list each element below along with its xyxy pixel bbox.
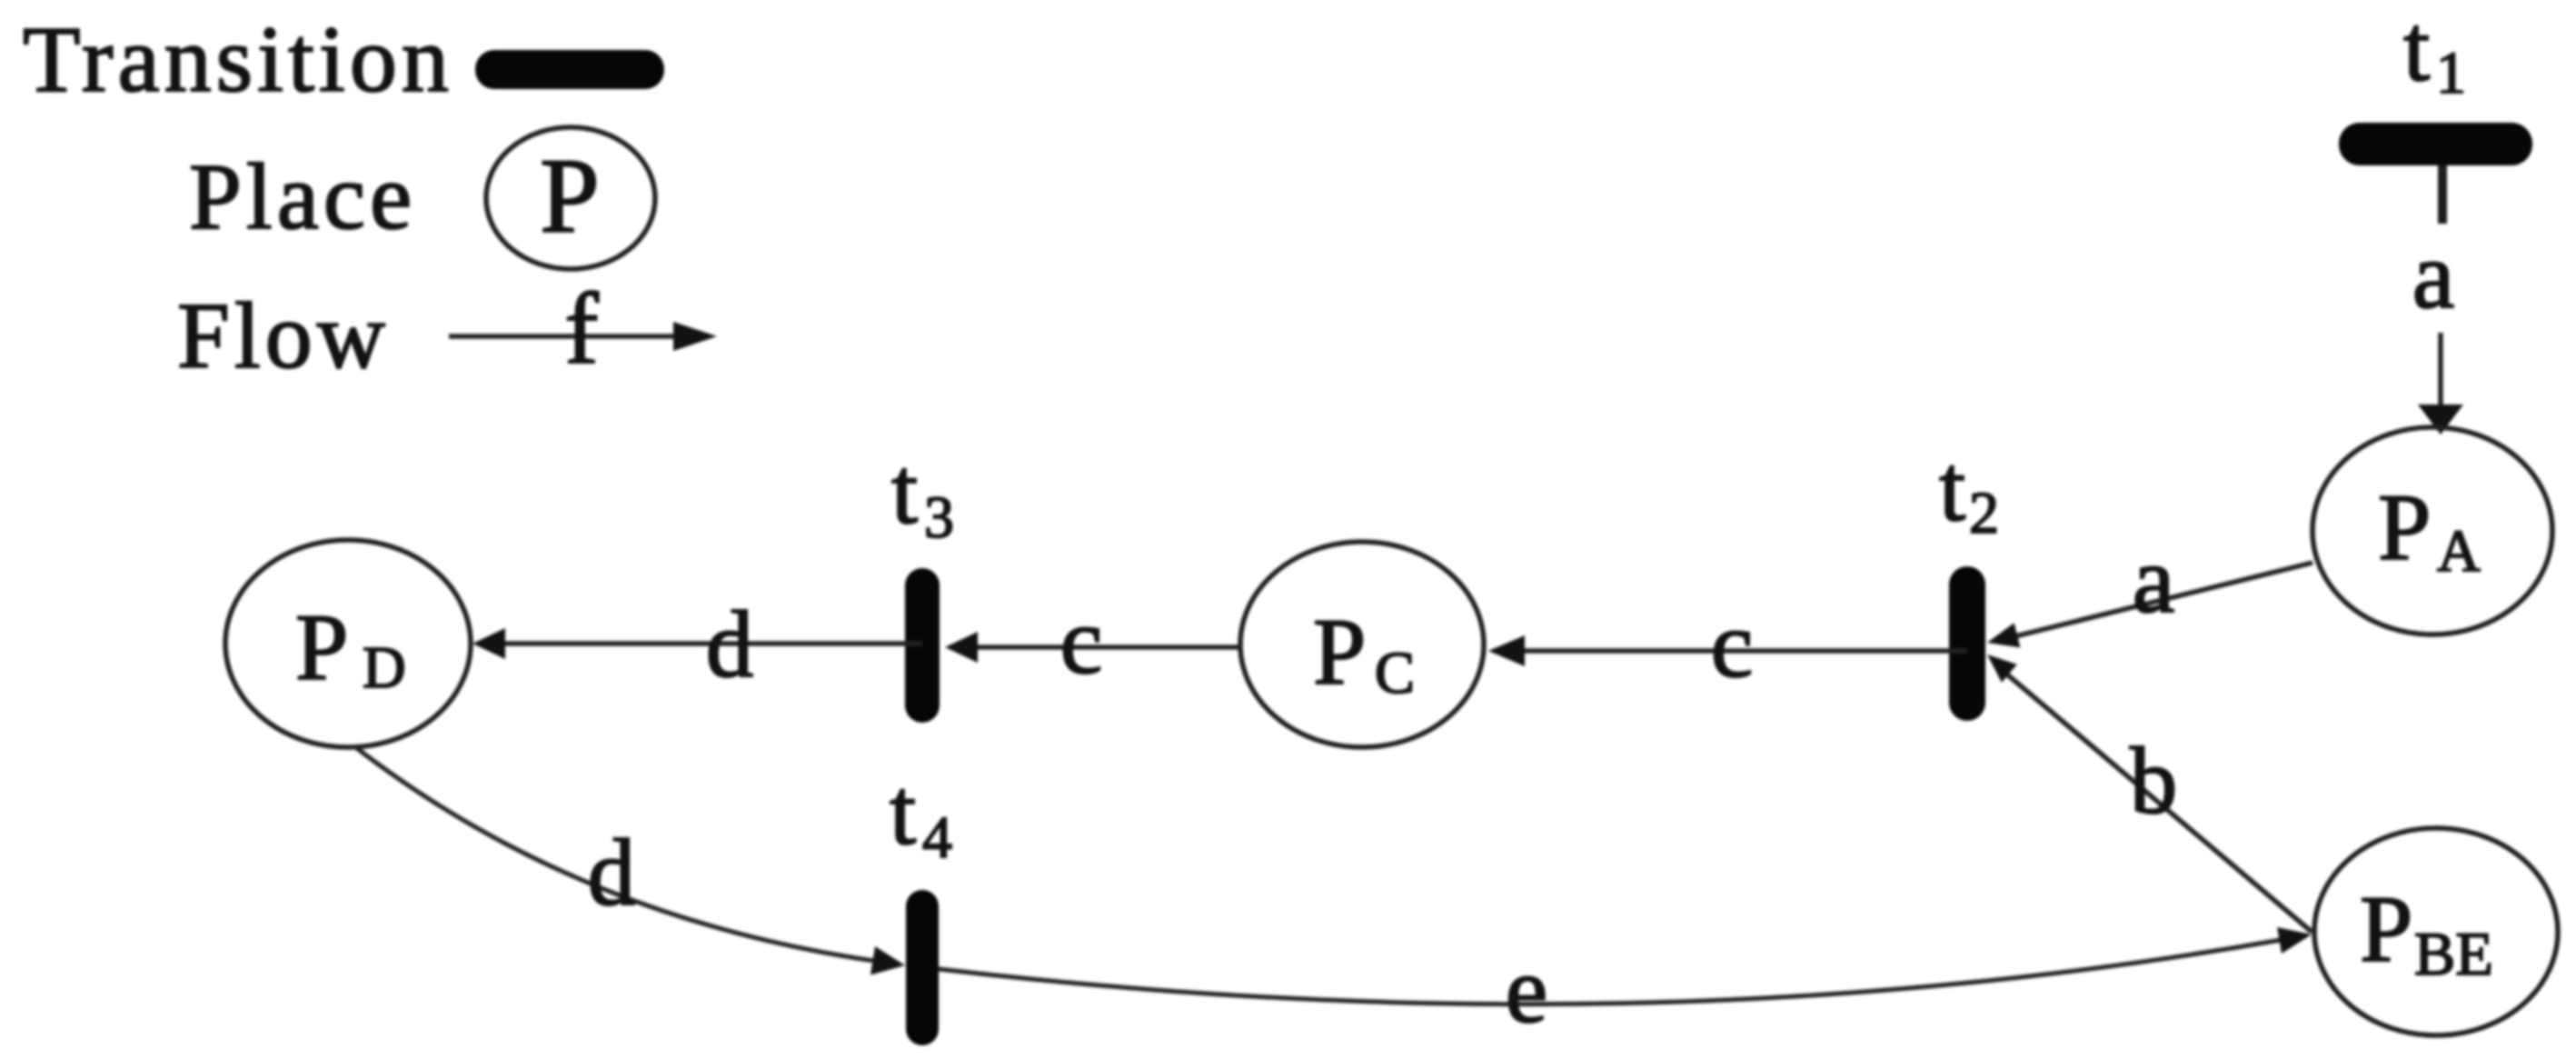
flow d curve (PD to t4) (354, 746, 874, 961)
place PD label (295, 594, 406, 701)
place PD circle (225, 540, 471, 747)
svg-text:t: t (2403, 0, 2430, 101)
transition t1 bar (2339, 123, 2532, 165)
svg-text:t: t (1939, 435, 1965, 541)
svg-text:b: b (2130, 727, 2178, 834)
svg-text:Place: Place (189, 145, 416, 249)
flow d arrowhead at t4 (870, 946, 905, 975)
svg-text:A: A (2437, 518, 2481, 584)
flow e curve (t4 to PBE) (939, 940, 2281, 1004)
svg-text:t: t (890, 758, 916, 864)
flow a wire (PA to t2) (2015, 563, 2312, 636)
svg-text:t: t (891, 437, 918, 544)
svg-text:a: a (2412, 222, 2455, 328)
transition t3 bar (905, 568, 940, 723)
svg-text:d: d (588, 819, 636, 925)
transition t2 bar (1949, 566, 1985, 721)
place PBE label (2360, 875, 2493, 988)
svg-text:3: 3 (924, 485, 954, 551)
flow e arrowhead at PBE (2277, 927, 2312, 954)
legend transition bar symbol (475, 50, 664, 89)
flow b wire (PBE to t2) (2007, 674, 2312, 932)
svg-text:c: c (1060, 587, 1103, 694)
legend place circle symbol (486, 127, 655, 269)
place PC label (1313, 598, 1415, 706)
flow b arrowhead at t2 (1987, 654, 2017, 683)
svg-text:1: 1 (2436, 40, 2466, 106)
transition t4 bar (906, 890, 939, 1045)
flow c wire (t2 to PC) (1523, 648, 1967, 654)
flow c arrowhead at PC (1488, 635, 1525, 666)
flow c arrowhead at t3 (945, 632, 978, 663)
legend flow arrowhead (673, 322, 717, 351)
svg-text:P: P (540, 136, 600, 255)
svg-text:BE: BE (2414, 919, 2493, 988)
legend flow arrow wire (449, 334, 677, 339)
svg-text:P: P (1313, 598, 1366, 704)
flow d wire (t3 to PD) (503, 641, 922, 646)
place PA circle (2312, 427, 2552, 634)
svg-text:P: P (2378, 474, 2431, 580)
flow a arrowhead at t2 (1987, 623, 2020, 647)
svg-text:d: d (706, 591, 754, 697)
svg-text:P: P (295, 594, 348, 700)
svg-text:e: e (1506, 936, 1548, 1043)
place PA label (2378, 474, 2481, 584)
svg-text:4: 4 (922, 804, 952, 871)
flow d arrowhead at PD (472, 628, 505, 659)
svg-text:a: a (2133, 526, 2175, 633)
transition t1 label (2403, 0, 2466, 106)
transition t3 label (891, 437, 954, 551)
flow c wire (PC to t3) (976, 644, 1240, 650)
wire t1 stub (2438, 165, 2447, 224)
flow a wire (t1 to PA) (2438, 333, 2443, 409)
svg-text:2: 2 (1969, 480, 1999, 546)
svg-text:D: D (363, 634, 406, 701)
place PBE circle (2314, 828, 2558, 1035)
svg-text:Flow: Flow (177, 284, 390, 388)
flow a arrowhead at PA (2418, 405, 2463, 435)
transition t2 label (1939, 435, 1999, 546)
svg-text:c: c (1711, 591, 1754, 697)
place PC circle (1240, 542, 1484, 747)
svg-text:Transition: Transition (23, 7, 453, 112)
svg-text:C: C (1375, 640, 1415, 706)
transition t4 label (890, 758, 952, 871)
svg-text:f: f (564, 273, 599, 385)
svg-text:P: P (2360, 875, 2412, 982)
